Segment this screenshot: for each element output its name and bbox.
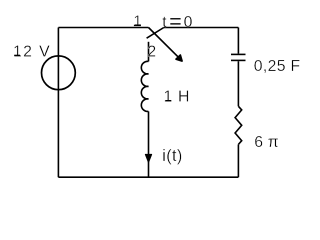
- svg-text:t: t: [162, 14, 167, 31]
- voltage source V1 circle: [42, 56, 76, 90]
- svg-text:1: 1: [133, 13, 141, 30]
- wire inductor top stub: [148, 42, 150, 62]
- switch S1 blade line to arrow: [149, 28, 180, 59]
- svg-text:0,25 F: 0,25 F: [254, 58, 301, 75]
- resistor R1 zigzag: [235, 106, 242, 144]
- current arrow i(t) head: [145, 154, 151, 162]
- wire inductor bottom to rail: [148, 111, 150, 177]
- switch S1 arrowhead: [176, 55, 182, 61]
- capacitor C1 bottom plate: [231, 59, 246, 61]
- wire capacitor to resistor: [237, 61, 239, 106]
- capacitor C1 top plate: [231, 53, 246, 55]
- switch S1 contact line toward node 2: [147, 28, 164, 39]
- svg-text:i(t): i(t): [162, 147, 182, 165]
- wire left branch: [57, 28, 59, 178]
- label t = 0 : equals bottom bar: [170, 23, 180, 24]
- wire resistor bottom to rail: [237, 144, 239, 177]
- wire top rail left: [58, 27, 148, 29]
- label t = 0 : equals top bar: [170, 18, 180, 19]
- wire capacitor top stub: [237, 28, 239, 54]
- svg-text:6 π: 6 π: [254, 134, 279, 151]
- wire bottom rail: [58, 176, 238, 178]
- svg-text:1 H: 1 H: [164, 89, 191, 106]
- wire top rail right: [164, 27, 239, 29]
- inductor L1 coil: [141, 61, 148, 111]
- svg-text:0: 0: [184, 14, 193, 31]
- svg-text:2: 2: [147, 43, 156, 60]
- label node 1 foot serif: [134, 25, 141, 26]
- label 12 V digit-1 foot serif: [14, 55, 20, 56]
- svg-text:12 V: 12 V: [13, 44, 51, 61]
- label 1 H digit-1 foot serif: [166, 100, 172, 101]
